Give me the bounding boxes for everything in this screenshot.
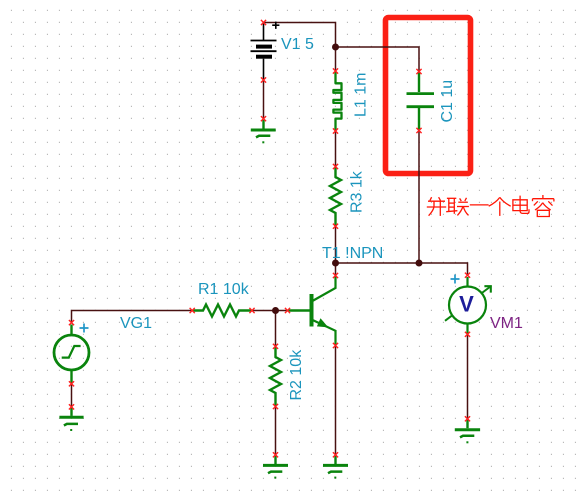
svg-text:VM1: VM1: [490, 315, 523, 332]
hanzi bing (parallel): [430, 197, 432, 200]
svg-text:R3 1k: R3 1k: [349, 170, 366, 213]
wire C1 bottom to node C: [418, 131, 420, 263]
VG1 plus mark: [80, 324, 89, 333]
svg-text:V1 5: V1 5: [281, 36, 314, 53]
resistor R3: [330, 168, 341, 227]
pin mark: T1 collector pin: [333, 273, 338, 278]
wire node A to C1 top: [336, 47, 420, 72]
pin mark: R2 pin bottom: [273, 404, 278, 409]
pin marks (red x): [69, 20, 470, 458]
transistor T1: [289, 276, 336, 345]
annotation text (red): [427, 195, 554, 217]
wire battery minus to ground: [263, 80, 265, 119]
ground under VG1: [59, 408, 83, 430]
node C junction: [416, 260, 423, 267]
node B junction: [332, 260, 339, 267]
svg-text:R2 10k: R2 10k: [288, 349, 305, 401]
wire node D to R2 top: [275, 311, 277, 346]
hanzi yi (one): [470, 204, 489, 206]
svg-text:C1 1u: C1 1u: [439, 80, 456, 123]
highlight box around C1: [386, 18, 471, 174]
pin mark: R1 pin right: [249, 308, 254, 313]
wire L1 bottom to R3 top: [335, 131, 337, 167]
svg-text:R1 10k: R1 10k: [198, 281, 250, 298]
svg-text:T1 !NPN: T1 !NPN: [322, 245, 383, 262]
voltmeter VM1: [445, 277, 491, 334]
ground under R2: [263, 456, 288, 478]
svg-text:VG1: VG1: [120, 315, 152, 332]
pin mark: ground pin under V1: [261, 116, 266, 121]
wire node C to VM1 plus: [419, 263, 468, 275]
pin mark: VM1 pin - bottom: [465, 332, 470, 337]
pin mark: C1 pin bottom: [416, 128, 421, 133]
wire VG1 minus to ground: [71, 384, 73, 407]
pin mark: V1 pin - bottom: [261, 77, 266, 82]
wire R1 right to T1 base through node D: [252, 310, 288, 312]
pin mark: R1 pin left: [190, 308, 195, 313]
resistor R1: [193, 305, 252, 317]
svg-text:V: V: [459, 291, 474, 316]
VM1 plus mark: [451, 275, 460, 284]
wire R2 bottom to ground: [275, 407, 277, 455]
wire node B to node C: [336, 262, 420, 264]
pin mark: L1 pin top: [333, 68, 338, 73]
pin mark: R3 pin top: [333, 164, 338, 169]
pin mark: R3 pin bottom: [333, 224, 338, 229]
node D junction: [272, 307, 279, 314]
pin mark: VG1 pin - bottom: [69, 381, 74, 386]
battery V1: [251, 22, 280, 80]
pin mark: T1 emitter pin: [333, 343, 338, 348]
resistor R2: [270, 347, 281, 406]
wire VG1 plus to R1 left: [72, 311, 193, 323]
pin mark: ground pin under VM1: [465, 416, 470, 421]
wire battery top to node A: [264, 23, 336, 48]
hanzi ge (counter): [489, 197, 500, 206]
pin mark: R2 pin top: [273, 344, 278, 349]
pin mark: V1 pin + top: [261, 20, 266, 25]
pin mark: ground pin under VG1: [69, 404, 74, 409]
svg-text:L1 1m: L1 1m: [353, 73, 370, 117]
capacitor C1: [407, 73, 435, 131]
wire VM1 minus to ground: [467, 335, 469, 420]
wire node A to L1 top: [335, 47, 337, 71]
pin mark: T1 base pin: [285, 308, 290, 313]
hanzi dian (electric): [520, 196, 529, 214]
pin mark: VM1 pin + top: [465, 273, 470, 278]
pin mark: ground pin under R2: [273, 452, 278, 457]
pin mark: L1 pin bottom: [333, 128, 338, 133]
generator VG1: [54, 325, 89, 384]
wire T1 emitter to ground: [335, 346, 337, 455]
hanzi rong (capacity): [542, 195, 544, 198]
ground under T1 emitter: [323, 456, 348, 478]
pin mark: ground pin under T1 emitter: [333, 452, 338, 457]
pin mark: VG1 pin + top: [69, 320, 74, 325]
ground under battery: [251, 120, 276, 142]
wire R3 bottom to T1 collector through node B: [335, 227, 337, 276]
node A junction: [332, 44, 339, 51]
hanzi lian (connect): [447, 197, 456, 199]
inductor L1: [333, 72, 341, 132]
pin mark: C1 pin top: [416, 69, 421, 74]
ground under VM1: [455, 420, 480, 442]
